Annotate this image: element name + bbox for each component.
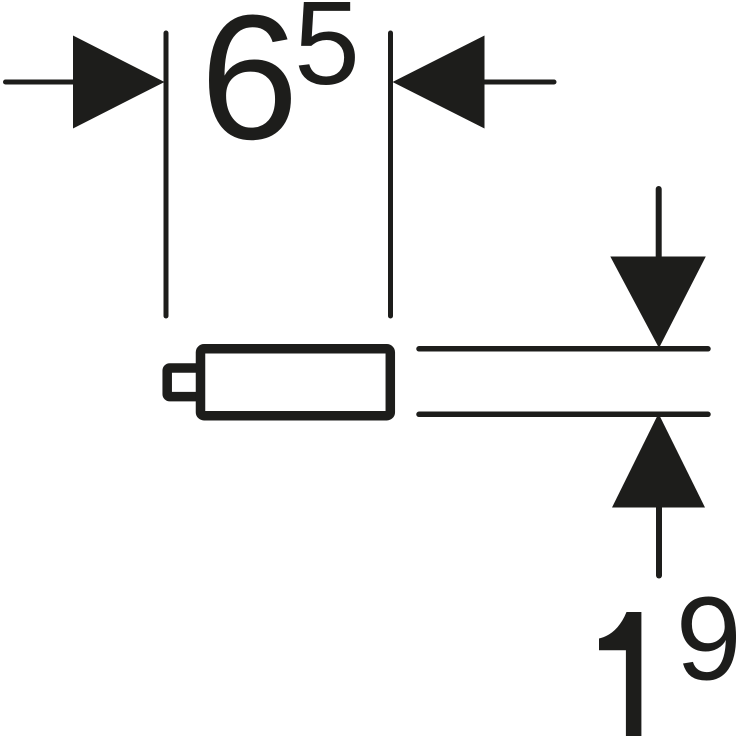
svg-text:9: 9 xyxy=(676,573,736,705)
up arrowhead (points at bottom pipe line) xyxy=(612,414,705,508)
wire: right dimension leader line xyxy=(484,80,554,85)
wire: left dimension leader line xyxy=(6,80,75,85)
down arrowhead (points at top pipe line) xyxy=(610,257,706,349)
svg-text:6: 6 xyxy=(200,0,299,177)
wire: bottom pipe line xyxy=(419,412,708,418)
left arrowhead (points right at extension line) xyxy=(73,36,165,129)
fitting body rectangle xyxy=(201,349,391,416)
right extension line xyxy=(388,33,393,316)
wire: lower vertical leader (stem of up arrow) xyxy=(656,507,662,576)
left extension line xyxy=(164,33,169,316)
nub: small protrusion on left of fitting xyxy=(167,368,205,397)
right arrowhead (points left at extension line) xyxy=(393,36,485,129)
svg-text:5: 5 xyxy=(294,0,360,110)
dimension value 1 (custom Helvetica-style glyph) xyxy=(599,612,641,736)
wire: top pipe line xyxy=(419,346,708,352)
wire: upper vertical leader (stem of down arrow) xyxy=(656,189,662,258)
